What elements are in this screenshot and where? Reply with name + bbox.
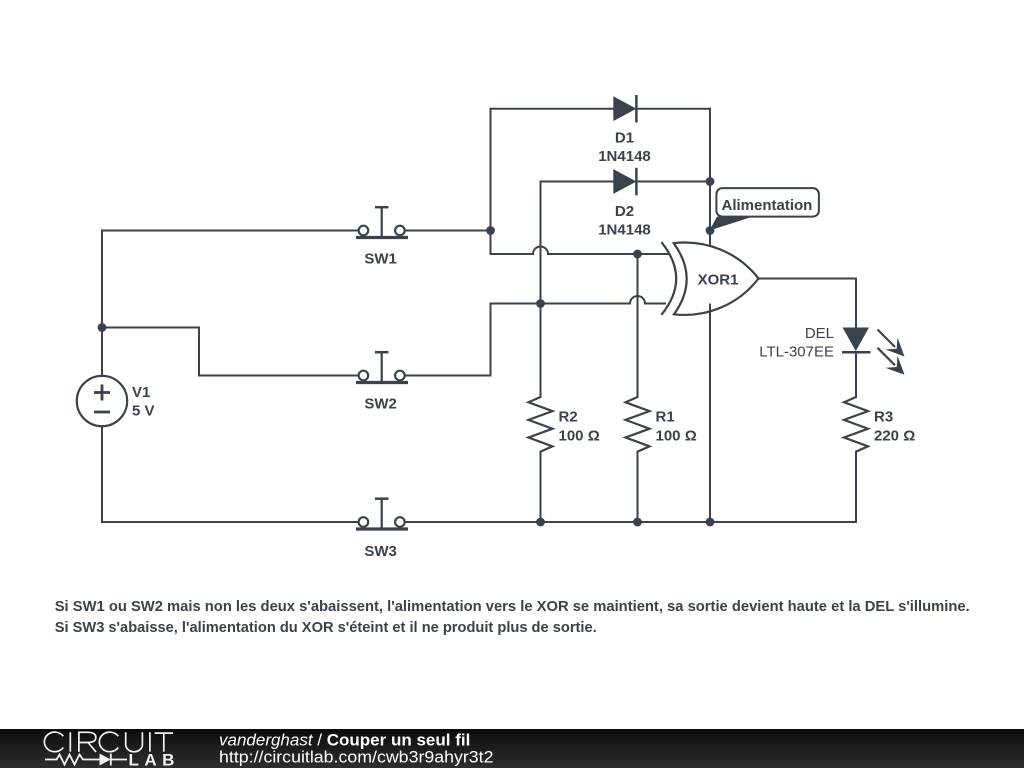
wire D2 cathode: [636, 181, 710, 183]
wire SW2 riser to input B: [490, 304, 492, 376]
wire XOR output: [759, 279, 857, 328]
callout Alimentation box: [716, 188, 819, 217]
svg-text:D2: D2: [615, 203, 634, 220]
node bottom rail / R1: [633, 518, 642, 527]
wire R2 branch vertical (D2 to input B row): [540, 182, 542, 304]
wire R2 top lead: [540, 304, 542, 398]
node SW1/D1/inputA junction: [486, 226, 495, 235]
resistor R2: [529, 397, 553, 452]
wire SW1 row left: [102, 230, 358, 232]
wire SW2 row right: [405, 375, 491, 377]
svg-text:R3: R3: [874, 409, 893, 426]
wire R1 bottom lead: [637, 452, 639, 522]
wire XOR input A drop: [490, 231, 492, 255]
node D2 cathode / right vertical: [706, 177, 715, 186]
wire R1 top lead from input A node: [637, 254, 639, 397]
svg-text:100 Ω: 100 Ω: [656, 427, 697, 444]
wire R3 bottom lead: [855, 452, 857, 522]
node bottom rail / R2: [536, 518, 545, 527]
LED DEL LTL-307EE: [842, 328, 871, 353]
svg-text:LTL-307EE: LTL-307EE: [759, 343, 834, 360]
wire XOR input B with hop over R1 branch: [491, 296, 666, 304]
svg-text:DEL: DEL: [805, 325, 834, 342]
voltage source V1: [77, 376, 127, 426]
svg-text:XOR1: XOR1: [698, 271, 739, 288]
svg-text:1N4148: 1N4148: [598, 148, 651, 165]
resistor R1: [626, 397, 650, 452]
wire LED cathode to R3: [855, 352, 857, 397]
wire D1 left vertical: [490, 109, 492, 231]
svg-text:SW1: SW1: [364, 251, 397, 268]
wire right vertical D1 to XOR vdd node: [709, 109, 711, 231]
svg-text:SW3: SW3: [364, 543, 397, 560]
switch SW2: [356, 352, 408, 382]
svg-text:Si SW3 s'abaisse, l'alimentati: Si SW3 s'abaisse, l'alimentation du XOR …: [55, 619, 597, 636]
svg-text:220 Ω: 220 Ω: [874, 427, 915, 444]
svg-text:1N4148: 1N4148: [598, 222, 651, 239]
diode D2: [613, 168, 636, 196]
switch SW1: [356, 207, 408, 237]
svg-text:SW2: SW2: [364, 396, 397, 413]
svg-text:http://circuitlab.com/cwb3r9ah: http://circuitlab.com/cwb3r9ahyr3t2: [219, 748, 494, 767]
wire bottom rail left: [102, 521, 358, 523]
wire SW2 branch from left rail: [102, 328, 358, 376]
svg-text:Si SW1 ou SW2 mais non les deu: Si SW1 ou SW2 mais non les deux s'abaiss…: [55, 598, 970, 615]
footer logo CIRCUIT: [44, 732, 173, 752]
diode D1: [613, 95, 636, 123]
svg-text:5 V: 5 V: [132, 402, 155, 419]
LED light arrow 1: [878, 330, 905, 357]
wire XOR input A with hop over R2 branch: [491, 247, 669, 254]
svg-text:R2: R2: [559, 409, 578, 426]
LED light arrow 2: [878, 348, 905, 375]
wire left rail top (V1 plus to SW1 row): [101, 231, 103, 377]
wire D1 cathode: [636, 108, 710, 110]
svg-text:V1: V1: [132, 384, 150, 401]
footer logo diode triangle: [100, 754, 111, 766]
node input A / R1 junction: [633, 250, 642, 259]
node Alimentation / XOR vdd: [706, 226, 715, 235]
svg-text:LAB: LAB: [129, 750, 180, 768]
resistor R3: [844, 397, 868, 452]
svg-text:R1: R1: [656, 409, 675, 426]
node bottom rail / XOR vss: [706, 518, 715, 527]
wire D1 anode: [491, 108, 614, 110]
op-amp XOR gate XOR1 body: [661, 242, 758, 315]
wire D2 anode: [541, 181, 614, 183]
wire SW1 row right: [405, 230, 491, 232]
wire R2 bottom lead: [540, 452, 542, 522]
node input B / R2 junction: [536, 299, 545, 308]
wire XOR vdd pin: [709, 231, 711, 247]
callout Alimentation pointer: [710, 217, 754, 231]
svg-text:100 Ω: 100 Ω: [559, 427, 600, 444]
wire bottom rail right: [405, 521, 856, 523]
svg-text:D1: D1: [615, 129, 634, 146]
node V1 plus / SW2 branch junction: [98, 323, 107, 332]
wire XOR vss pin to bottom rail: [709, 304, 711, 523]
footer logo resistor-diode line: [45, 754, 127, 766]
svg-text:Alimentation: Alimentation: [722, 197, 813, 214]
switch SW3: [356, 499, 408, 529]
wire left rail bottom (V1 minus to bottom rail): [101, 426, 103, 522]
